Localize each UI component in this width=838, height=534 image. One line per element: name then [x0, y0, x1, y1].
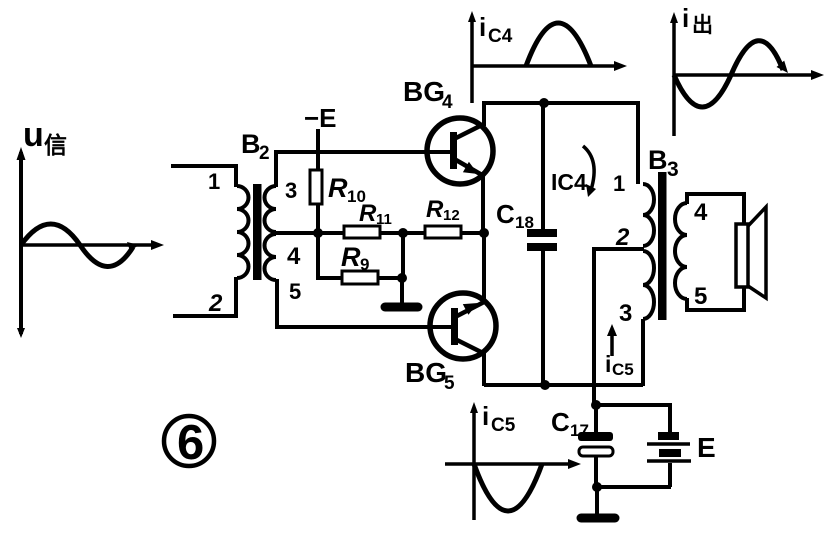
svg-text:2: 2	[615, 224, 630, 251]
wire R12 to emitter node	[461, 231, 484, 235]
label iC5 (waveform)	[482, 401, 516, 436]
svg-text:C5: C5	[491, 415, 516, 436]
svg-text:11: 11	[376, 211, 392, 228]
wire node to R9	[318, 233, 342, 278]
wire BG4 emitter down	[481, 173, 485, 233]
transformer B3 secondary winding	[675, 203, 687, 299]
label u信	[23, 116, 67, 158]
label B2	[241, 129, 270, 164]
svg-text:C: C	[496, 199, 515, 229]
svg-text:1: 1	[208, 169, 220, 194]
junction node R11/R12	[398, 228, 408, 238]
label B3	[648, 145, 679, 181]
wire bottom rail	[484, 383, 643, 387]
svg-text:B: B	[648, 145, 668, 175]
waveform iC5 horizontal axis	[445, 459, 581, 469]
label R9	[341, 242, 369, 274]
wire battery bottom to C17 bottom	[597, 485, 671, 489]
wire B2 terminal5 to BG5 base	[277, 279, 451, 327]
label R12	[426, 196, 460, 224]
svg-text:−E: −E	[304, 103, 337, 133]
pin label 2 (B3)	[615, 224, 630, 251]
wire R11 to R12	[380, 231, 425, 235]
svg-text:i: i	[479, 12, 486, 42]
waveform iC4 half-sine	[526, 23, 591, 66]
svg-text:4: 4	[442, 92, 453, 113]
junction node R10/R9	[313, 228, 323, 238]
svg-text:u: u	[23, 116, 44, 154]
waveform iC4 horizontal axis	[472, 61, 627, 71]
waveform i-out vertical axis	[670, 12, 678, 136]
wire B2 primary terminal 1	[171, 166, 236, 187]
input waveform u信 vertical axis	[17, 147, 26, 338]
svg-text:R: R	[328, 173, 348, 203]
pin label 5 (B2)	[289, 279, 301, 304]
svg-text:i: i	[605, 351, 611, 377]
label R10	[328, 173, 366, 206]
svg-text:5: 5	[444, 373, 455, 394]
pin label 1 (B3)	[613, 171, 625, 196]
label E	[697, 432, 716, 463]
svg-text:9: 9	[360, 255, 369, 274]
battery E	[647, 436, 691, 487]
svg-text:信: 信	[44, 132, 67, 158]
svg-text:E: E	[697, 432, 716, 463]
wire BG4 collector to top rail	[482, 103, 486, 126]
wire B3 pin3 down to bottom rail	[641, 319, 645, 386]
svg-text:17: 17	[570, 421, 589, 440]
label BG4	[403, 76, 453, 113]
svg-text:i: i	[482, 401, 489, 431]
transistor BG5	[430, 293, 496, 359]
svg-text:12: 12	[443, 207, 460, 224]
label R11	[359, 200, 392, 228]
junction node C17 bottom	[592, 482, 602, 492]
ground (main)	[581, 514, 615, 523]
svg-text:3: 3	[667, 158, 679, 181]
label IC4 current	[551, 169, 587, 195]
waveform i-out sine	[674, 41, 788, 107]
wire BG5 collector down	[482, 352, 486, 386]
waveform iC4 vertical axis	[468, 11, 476, 103]
wire B3 secondary bottom to speaker	[687, 286, 744, 310]
junction node emitters/R12	[479, 228, 489, 238]
svg-text:3: 3	[619, 300, 632, 327]
junction node top rail / C18	[539, 98, 549, 108]
svg-text:5: 5	[694, 283, 707, 310]
svg-text:C4: C4	[488, 26, 513, 47]
svg-text:IC4: IC4	[551, 169, 587, 195]
svg-text:B: B	[241, 129, 261, 159]
label iC4	[479, 12, 513, 47]
pin label 1 (B2)	[208, 169, 220, 194]
wire B2 terminal3 to BG4 base	[276, 152, 450, 187]
pin label 3 (B2)	[285, 178, 297, 203]
svg-text:2: 2	[208, 290, 223, 317]
svg-text:R: R	[426, 196, 444, 223]
wire tap node to battery top	[596, 405, 670, 433]
svg-text:3: 3	[285, 178, 297, 203]
wire R10 bottom to node	[316, 204, 320, 233]
label BG5	[405, 357, 455, 394]
wire divider node vertical	[401, 233, 405, 278]
resistor R9	[342, 271, 378, 284]
label i-out	[682, 3, 713, 37]
transformer B2 core	[253, 184, 262, 280]
transformer B3 core	[658, 172, 667, 320]
svg-text:4: 4	[694, 199, 708, 226]
label iC5 (branch)	[605, 351, 634, 379]
svg-text:C: C	[551, 407, 570, 437]
resistor R12	[425, 226, 461, 238]
resistor R10	[310, 170, 322, 204]
pin label 5 (B3)	[694, 283, 707, 310]
transformer B2 secondary winding	[265, 186, 277, 280]
svg-text:1: 1	[613, 171, 625, 196]
svg-text:18: 18	[515, 213, 534, 232]
svg-text:BG: BG	[405, 357, 447, 388]
pin label 4 (B3)	[694, 199, 708, 226]
junction node R9/ground	[397, 273, 407, 283]
waveform iC5 negative half-sine	[474, 464, 542, 511]
svg-text:6: 6	[177, 416, 204, 470]
waveform iC5 vertical axis	[470, 402, 478, 520]
svg-text:4: 4	[287, 243, 301, 270]
wire -E supply lead	[316, 129, 320, 170]
svg-text:出: 出	[692, 14, 713, 37]
ground (bias network)	[385, 303, 418, 312]
arc arrow IC4	[583, 146, 596, 197]
wire BG5 emitter up	[482, 233, 486, 303]
svg-text:2: 2	[259, 143, 270, 164]
label C17	[551, 407, 589, 440]
resistor R11	[344, 226, 380, 238]
transistor BG4	[427, 118, 493, 184]
figure number 6	[164, 416, 214, 466]
wire R9 right to divider node	[378, 276, 403, 280]
svg-text:BG: BG	[403, 76, 445, 107]
transformer B3 primary winding	[643, 184, 654, 319]
capacitor C18	[527, 103, 557, 385]
input waveform u信 sine curve	[21, 224, 139, 267]
input waveform u信 horizontal axis	[19, 240, 164, 250]
wire to main ground	[595, 487, 599, 515]
wire B2 primary terminal 2	[173, 277, 236, 316]
svg-text:R: R	[359, 200, 377, 227]
pin label 4 (B2)	[287, 243, 301, 270]
label -E	[304, 103, 337, 133]
wire B3 secondary top to speaker	[687, 194, 744, 225]
arrow iC5 in B3 branch	[607, 324, 617, 356]
waveform i-out horizontal axis	[674, 70, 824, 80]
speaker	[736, 207, 766, 298]
wire B3 center tap	[594, 249, 644, 405]
label C18	[496, 199, 534, 232]
wire top rail	[482, 103, 638, 184]
svg-text:C5: C5	[612, 360, 634, 379]
capacitor C17	[578, 405, 613, 488]
pin label 3 (B3)	[619, 300, 632, 327]
svg-text:5: 5	[289, 279, 301, 304]
svg-text:i: i	[682, 3, 689, 33]
transformer B2 primary winding	[237, 186, 249, 278]
wire to ground	[400, 278, 404, 304]
wire B2 center tap to bias node	[276, 231, 344, 235]
junction node bottom rail / C18	[540, 380, 550, 390]
pin label 2 (B2)	[208, 290, 223, 317]
junction node tap2/battery/C17	[591, 400, 601, 410]
svg-text:R: R	[341, 242, 361, 272]
